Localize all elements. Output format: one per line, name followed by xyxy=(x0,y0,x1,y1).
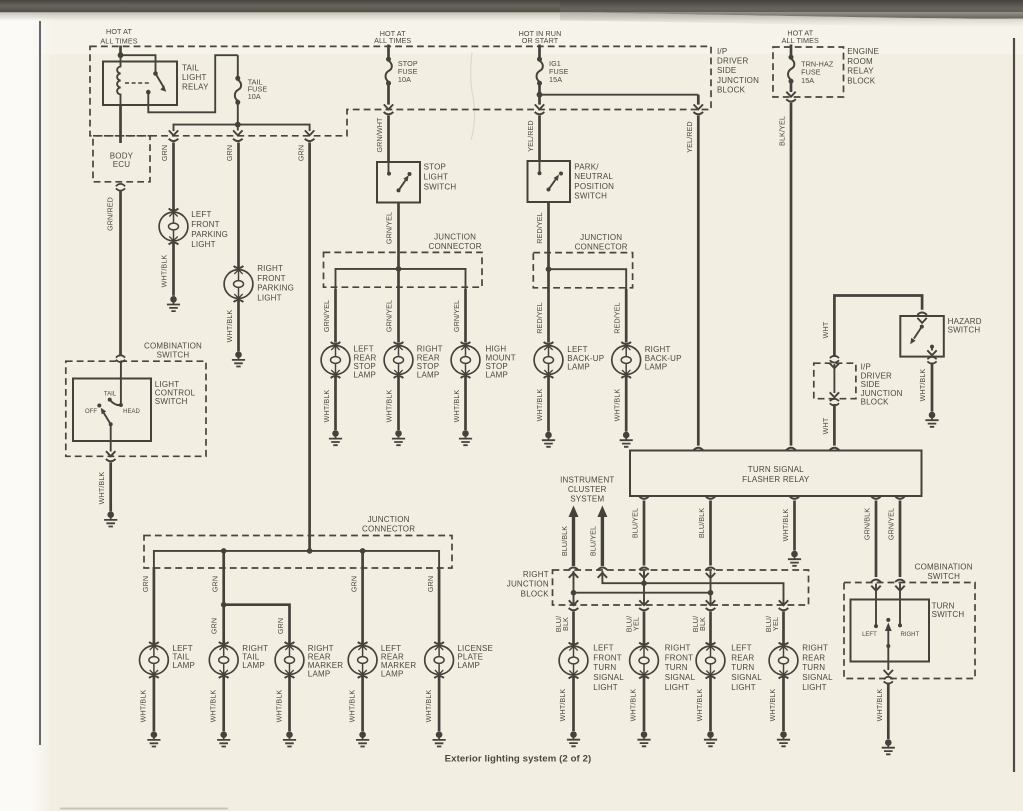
svg-text:GRN: GRN xyxy=(297,145,306,161)
wire BLU/YEL relay to junction block xyxy=(643,501,646,566)
svg-text:ROOM: ROOM xyxy=(847,57,873,66)
svg-text:RED/YEL: RED/YEL xyxy=(613,302,622,333)
wire GRN right tail xyxy=(222,551,225,646)
wire WHT/BLK relay to ground xyxy=(793,501,796,551)
svg-text:MOUNT: MOUNT xyxy=(486,353,516,362)
svg-text:BACK-UP: BACK-UP xyxy=(567,354,604,363)
svg-text:LEFT: LEFT xyxy=(191,210,211,219)
lamp right back-up xyxy=(612,342,641,378)
park/neutral input contact xyxy=(539,161,541,173)
hazard switch box xyxy=(900,316,944,357)
svg-text:RIGHT: RIGHT xyxy=(523,570,549,579)
svg-text:WHT/BLK: WHT/BLK xyxy=(160,255,169,288)
svg-text:RED/YEL: RED/YEL xyxy=(535,302,544,333)
wire RED/YEL park/neutral to junction xyxy=(547,202,550,269)
wire stop fuse output xyxy=(387,83,390,104)
wire RED/YEL right backup xyxy=(625,289,628,343)
svg-text:WHT/BLK: WHT/BLK xyxy=(768,689,777,722)
lamp license plate lamp xyxy=(425,642,454,678)
wire GRN/WHT to stop light switch xyxy=(387,116,390,163)
svg-text:LIGHT: LIGHT xyxy=(257,293,282,302)
svg-text:DRIVER: DRIVER xyxy=(861,371,892,380)
arc TAIL to HEAD xyxy=(110,400,121,406)
light control switch box xyxy=(73,379,151,442)
relay coil-contact dashed link xyxy=(125,82,150,84)
svg-text:GRN: GRN xyxy=(350,576,359,592)
wire GRN branch to right rear marker xyxy=(224,605,290,646)
wire GRN/BLK relay to turn switch xyxy=(875,501,878,578)
ground license plate lamp xyxy=(433,731,446,746)
svg-text:GRN/BLK: GRN/BLK xyxy=(862,508,871,540)
relay fixed contact xyxy=(153,71,158,76)
svg-text:JUNCTION: JUNCTION xyxy=(434,232,476,241)
svg-text:SWITCH: SWITCH xyxy=(155,397,188,406)
wire GRN/YEL stop switch to junction xyxy=(397,203,400,269)
scanner top bar xyxy=(0,0,1023,13)
turn switch output xyxy=(887,662,889,671)
GRN distribution bus xyxy=(174,125,310,131)
svg-text:SYSTEM: SYSTEM xyxy=(570,495,604,504)
body ECU dashed box xyxy=(93,136,150,182)
wire into stop fuse xyxy=(387,45,390,60)
svg-text:PARKING: PARKING xyxy=(191,230,228,239)
wire node A to relay contact xyxy=(121,55,156,73)
wire WHT/BLK left front turn signal to ground xyxy=(572,675,575,731)
svg-text:YEL: YEL xyxy=(632,617,641,631)
arrows into GRN wires xyxy=(169,130,178,135)
svg-text:HOT AT: HOT AT xyxy=(106,27,132,36)
node BLU/YEL junction xyxy=(641,580,647,586)
svg-text:WHT/BLK: WHT/BLK xyxy=(695,689,704,722)
svg-text:COMBINATION: COMBINATION xyxy=(144,342,202,351)
lamp left back-up xyxy=(534,342,563,378)
lamp high mount stop xyxy=(451,342,480,378)
svg-text:HEAD: HEAD xyxy=(123,409,140,415)
wire YEL/RED to park/neutral switch xyxy=(538,116,541,162)
wire GRN license plate xyxy=(438,567,441,646)
lamp right front parking light xyxy=(224,266,253,302)
lamp right rear turn signal light xyxy=(769,643,798,679)
svg-text:BLU/YEL: BLU/YEL xyxy=(630,508,639,538)
svg-text:GRN/RED: GRN/RED xyxy=(106,197,115,231)
wire GRN left rear marker xyxy=(361,551,364,646)
wire IG1 fuse output xyxy=(538,83,541,104)
svg-text:SWITCH: SWITCH xyxy=(932,610,965,619)
park/neutral position switch box xyxy=(528,161,571,202)
svg-text:REAR: REAR xyxy=(417,353,440,362)
svg-text:GRN: GRN xyxy=(211,576,220,592)
svg-text:SWITCH: SWITCH xyxy=(927,572,960,581)
svg-text:CONNECTOR: CONNECTOR xyxy=(362,524,415,533)
svg-text:GRN/YEL: GRN/YEL xyxy=(385,300,394,332)
wire WHT through I/P block xyxy=(830,363,839,368)
wire GRN right front parking xyxy=(237,143,240,270)
svg-text:TURN: TURN xyxy=(731,663,754,672)
right junction block dashed box xyxy=(553,570,809,605)
svg-text:LEFT: LEFT xyxy=(862,632,877,638)
ground right rear stop xyxy=(392,430,405,445)
ground left rear marker lamp xyxy=(356,731,369,746)
svg-text:ECU: ECU xyxy=(113,160,131,169)
lamp left rear stop xyxy=(321,342,350,378)
svg-text:WHT/BLK: WHT/BLK xyxy=(452,390,461,423)
svg-text:WHT/BLK: WHT/BLK xyxy=(613,389,622,422)
svg-text:SIGNAL: SIGNAL xyxy=(802,673,833,682)
inline connector below body ECU xyxy=(116,184,125,191)
contact HEAD xyxy=(119,403,123,407)
park/neutral arm xyxy=(547,188,551,192)
lamp right tail lamp xyxy=(209,642,238,678)
svg-text:TURN SIGNAL: TURN SIGNAL xyxy=(748,465,804,474)
ground right front parking xyxy=(232,351,245,366)
node rear junction input xyxy=(307,548,313,554)
svg-text:LAMP: LAMP xyxy=(242,661,265,670)
stop light switch box xyxy=(377,162,420,203)
wire WHT/BLK right front turn signal to ground xyxy=(643,675,646,731)
wire WHT/BLK right rear turn signal to ground xyxy=(782,675,785,731)
junction block internal wires xyxy=(573,571,575,605)
wire WHT/BLK left tail lamp to ground xyxy=(153,675,156,732)
relay coil xyxy=(117,55,120,105)
wire WHT/BLK right tail lamp to ground xyxy=(222,675,225,732)
svg-text:REAR: REAR xyxy=(354,353,377,362)
svg-text:GRN/YEL: GRN/YEL xyxy=(385,212,394,244)
svg-text:WHT/BLK: WHT/BLK xyxy=(347,690,356,723)
svg-text:PARK/: PARK/ xyxy=(574,163,599,172)
svg-text:BLU/YEL: BLU/YEL xyxy=(589,526,598,556)
svg-text:RED/YEL: RED/YEL xyxy=(535,212,544,243)
combination switch dashed box xyxy=(66,361,206,456)
stop switch input contact xyxy=(388,162,390,174)
ground hazard switch xyxy=(925,412,938,427)
connectors at top edge xyxy=(569,568,579,570)
svg-text:RIGHT: RIGHT xyxy=(645,345,671,354)
ground left tail lamp xyxy=(147,731,160,746)
svg-text:WHT/BLK: WHT/BLK xyxy=(629,689,638,722)
rear junction bus xyxy=(154,551,439,568)
wire WHT/BLK right rear marker lamp to ground xyxy=(288,675,291,732)
svg-text:DRIVER: DRIVER xyxy=(717,57,748,66)
svg-text:TURN: TURN xyxy=(932,601,955,610)
svg-text:LIGHT: LIGHT xyxy=(802,683,827,692)
svg-text:GRN: GRN xyxy=(210,618,219,634)
node A (relay feed junction) xyxy=(118,52,124,58)
svg-text:STOP: STOP xyxy=(424,163,446,172)
wire WHT/BLK license plate lamp to ground xyxy=(438,675,441,732)
engine room relay block dashed box xyxy=(773,47,844,97)
wire WHT/BLK to ground xyxy=(109,463,112,512)
svg-text:LEFT: LEFT xyxy=(593,644,613,653)
svg-text:RIGHT: RIGHT xyxy=(257,264,283,273)
svg-text:GRN/WHT: GRN/WHT xyxy=(375,117,384,153)
svg-text:WHT/BLK: WHT/BLK xyxy=(97,472,106,505)
svg-text:GRN: GRN xyxy=(426,576,435,592)
svg-text:NEUTRAL: NEUTRAL xyxy=(574,172,613,181)
svg-text:WHT: WHT xyxy=(821,321,830,338)
I/P driver side junction block (small) dashed box xyxy=(814,363,856,399)
svg-text:INSTRUMENT: INSTRUMENT xyxy=(560,475,614,484)
svg-text:BLOCK: BLOCK xyxy=(847,77,876,86)
lamp left front turn signal light xyxy=(559,643,588,679)
svg-text:LAMP: LAMP xyxy=(645,363,668,372)
svg-text:10A: 10A xyxy=(398,75,411,84)
svg-text:HIGH: HIGH xyxy=(486,345,507,354)
I/P driver side junction block (top, dashed outline) xyxy=(90,46,711,135)
svg-text:STOP: STOP xyxy=(417,362,439,371)
wire WHT/BLK left rear turn signal to ground xyxy=(709,675,712,731)
turn switch pole xyxy=(886,618,890,622)
svg-text:CONNECTOR: CONNECTOR xyxy=(575,242,628,251)
wire into IG1 fuse xyxy=(538,45,541,60)
stop fuse 10A xyxy=(386,57,392,86)
ground right rear marker lamp xyxy=(283,731,296,746)
svg-text:JUNCTION: JUNCTION xyxy=(368,515,410,524)
svg-text:SIDE: SIDE xyxy=(861,380,880,389)
svg-text:SWITCH: SWITCH xyxy=(424,183,457,192)
relay output contact xyxy=(146,90,151,95)
inline connector at combination switch input xyxy=(116,355,125,362)
wire GRN/RED body ECU to combination switch xyxy=(119,191,122,355)
TRN-HAZ fuse 15A xyxy=(788,55,794,84)
ground right front turn signal xyxy=(637,731,650,746)
svg-text:YEL/RED: YEL/RED xyxy=(526,120,535,151)
lamp left tail lamp xyxy=(140,642,169,678)
park/neutral upper contact xyxy=(559,172,563,176)
wire IG1 to YEL/RED feed (horizontal) xyxy=(540,94,699,96)
hazard output contact xyxy=(930,345,934,349)
svg-text:LAMP: LAMP xyxy=(381,669,404,678)
connectors into combination switch xyxy=(871,580,881,582)
svg-text:ENGINE: ENGINE xyxy=(847,47,879,56)
left page edge line xyxy=(39,21,41,745)
lamp right rear marker lamp xyxy=(275,642,304,678)
svg-text:GRN: GRN xyxy=(141,576,150,592)
wire relay output to tail fuse xyxy=(148,55,238,112)
svg-text:ALL TIMES: ALL TIMES xyxy=(782,36,819,45)
svg-text:RIGHT: RIGHT xyxy=(665,644,691,653)
wire WHT/BLK below right front parking xyxy=(237,299,240,352)
lamp left rear marker lamp xyxy=(348,642,377,678)
svg-text:YEL: YEL xyxy=(771,617,780,631)
svg-text:15A: 15A xyxy=(549,75,562,84)
svg-text:BLK/YEL: BLK/YEL xyxy=(778,116,787,146)
svg-text:LAMP: LAMP xyxy=(173,661,196,670)
ground right back-up xyxy=(620,432,633,447)
svg-text:OR START: OR START xyxy=(522,36,559,45)
wire GRN/YEL high mount stop xyxy=(464,289,467,343)
ground right rear turn signal xyxy=(777,731,790,746)
svg-text:OFF: OFF xyxy=(85,409,97,415)
IG1 fuse 15A xyxy=(537,57,543,86)
node tail fuse output xyxy=(235,122,241,128)
wire light control output xyxy=(110,424,112,451)
wire WHT/BLK left rear marker lamp to ground xyxy=(361,675,364,732)
svg-text:WHT/BLK: WHT/BLK xyxy=(274,690,283,723)
svg-text:TURN: TURN xyxy=(802,663,825,672)
svg-text:REAR: REAR xyxy=(802,653,825,662)
svg-text:BACK-UP: BACK-UP xyxy=(645,354,682,363)
svg-text:SIGNAL: SIGNAL xyxy=(731,673,762,682)
svg-text:LAMP: LAMP xyxy=(457,661,480,670)
svg-text:WHT/BLK: WHT/BLK xyxy=(322,390,331,423)
svg-text:STOP: STOP xyxy=(486,362,508,371)
svg-text:SIGNAL: SIGNAL xyxy=(593,673,624,682)
svg-text:STOP: STOP xyxy=(354,362,376,371)
svg-text:SIGNAL: SIGNAL xyxy=(665,673,696,682)
lamp right rear stop xyxy=(384,342,413,378)
junction connector (stop lamps) dashed box xyxy=(324,252,483,287)
svg-text:LAMP: LAMP xyxy=(567,363,590,372)
wires WHT/BLK backup lamps to ground xyxy=(547,375,550,432)
flasher relay outputs xyxy=(639,496,649,498)
wire to tail fuse xyxy=(237,55,239,78)
wire WHT flasher relay to hazard switch xyxy=(833,404,836,446)
svg-text:TURN: TURN xyxy=(593,663,616,672)
svg-text:I/P: I/P xyxy=(717,47,727,56)
lamp right front turn signal light xyxy=(630,643,659,679)
node backup junction xyxy=(546,266,552,272)
svg-text:WHT/BLK: WHT/BLK xyxy=(875,689,884,722)
svg-text:JUNCTION: JUNCTION xyxy=(717,76,759,85)
svg-text:WHT/BLK: WHT/BLK xyxy=(535,389,544,422)
svg-text:GRN/YEL: GRN/YEL xyxy=(322,300,331,332)
svg-text:WHT/BLK: WHT/BLK xyxy=(918,369,927,402)
ground light control switch xyxy=(104,511,117,526)
contact TAIL xyxy=(108,398,112,402)
svg-text:RIGHT: RIGHT xyxy=(900,632,919,638)
svg-text:WHT/BLK: WHT/BLK xyxy=(558,689,567,722)
svg-text:FRONT: FRONT xyxy=(191,220,220,229)
node rear junction (left marker) xyxy=(360,548,366,554)
stop switch arm xyxy=(397,188,401,192)
svg-text:LAMP: LAMP xyxy=(354,371,377,380)
svg-text:LAMP: LAMP xyxy=(417,371,440,380)
svg-text:BLK: BLK xyxy=(561,617,570,631)
svg-text:ALL TIMES: ALL TIMES xyxy=(374,36,411,45)
svg-text:TAIL: TAIL xyxy=(104,392,117,398)
ground left rear turn signal xyxy=(704,731,717,746)
svg-text:RIGHT: RIGHT xyxy=(417,345,443,354)
wire WHT/BLK below left front parking xyxy=(172,241,175,296)
lamp left front parking light xyxy=(159,209,188,245)
svg-text:TAIL: TAIL xyxy=(182,64,199,73)
svg-text:WHT/BLK: WHT/BLK xyxy=(385,390,394,423)
ground left front turn signal xyxy=(567,731,580,746)
svg-text:SWITCH: SWITCH xyxy=(574,192,607,201)
node BLU/BLK junctions xyxy=(571,590,577,596)
wire BLU/BLK to left rear turn signal light xyxy=(709,612,712,646)
svg-text:I/P: I/P xyxy=(861,363,871,372)
wire RED/YEL left backup xyxy=(547,269,550,342)
svg-text:COMBINATION: COMBINATION xyxy=(915,563,973,572)
wire relay coil to body ECU xyxy=(119,105,122,143)
turn signal flasher relay box xyxy=(630,451,922,497)
svg-text:BLOCK: BLOCK xyxy=(861,398,890,407)
wire into light control switch xyxy=(120,363,122,406)
svg-text:SWITCH: SWITCH xyxy=(948,325,981,334)
wire WHT/BLK turn switch to ground xyxy=(887,683,890,740)
svg-text:WHT/BLK: WHT/BLK xyxy=(225,310,234,343)
ground left front parking xyxy=(167,296,180,311)
svg-text:LIGHT: LIGHT xyxy=(424,173,449,182)
svg-text:BLOCK: BLOCK xyxy=(521,589,550,598)
svg-text:WHT: WHT xyxy=(821,417,830,434)
svg-text:JUNCTION: JUNCTION xyxy=(580,233,622,242)
svg-text:RELAY: RELAY xyxy=(847,67,874,76)
wire BLU/BLK to left front turn signal light xyxy=(572,612,575,646)
hazard input contact xyxy=(920,325,924,329)
hazard output wire xyxy=(931,347,933,351)
svg-text:CONNECTOR: CONNECTOR xyxy=(428,242,481,251)
wire BLU/YEL to right rear turn signal light xyxy=(782,612,785,646)
svg-text:LAMP: LAMP xyxy=(308,669,331,678)
wire BLU/BLK relay to junction block xyxy=(709,501,712,566)
wire GRN left front parking xyxy=(172,143,175,212)
tail light relay box xyxy=(103,62,177,106)
svg-text:TURN: TURN xyxy=(665,663,688,672)
svg-text:LIGHT: LIGHT xyxy=(593,683,618,692)
wire GRN/BLK into LEFT contact xyxy=(875,584,877,627)
ground high mount stop xyxy=(459,430,472,445)
svg-text:BODY: BODY xyxy=(110,151,134,160)
svg-text:YEL/RED: YEL/RED xyxy=(685,121,694,152)
ground turn switch xyxy=(882,739,895,754)
svg-text:GRN/YEL: GRN/YEL xyxy=(452,300,461,332)
svg-text:JUNCTION: JUNCTION xyxy=(507,580,549,589)
contact OFF xyxy=(97,404,101,408)
svg-text:WHT/BLK: WHT/BLK xyxy=(139,690,148,723)
ground right tail lamp xyxy=(217,731,230,746)
svg-text:LIGHT: LIGHT xyxy=(665,683,690,692)
svg-text:PARKING: PARKING xyxy=(257,284,294,293)
svg-text:LEFT: LEFT xyxy=(567,345,587,354)
svg-text:BLU/BLK: BLU/BLK xyxy=(560,526,569,556)
hazard switch arm xyxy=(914,327,922,339)
svg-text:LEFT: LEFT xyxy=(354,345,374,354)
svg-text:REAR: REAR xyxy=(731,653,754,662)
svg-text:GRN: GRN xyxy=(276,618,285,634)
svg-text:FRONT: FRONT xyxy=(665,653,694,662)
wire trn-haz output xyxy=(790,82,793,93)
wire GRN/YEL left rear stop xyxy=(334,289,337,343)
wire GRN/YEL right rear stop xyxy=(397,269,400,343)
svg-text:15A: 15A xyxy=(801,76,814,85)
right page edge line xyxy=(1013,38,1015,772)
hazard input arrow xyxy=(917,318,926,323)
wire BLU/YEL to right front turn signal light xyxy=(643,612,646,646)
wire GRN/YEL into RIGHT contact xyxy=(899,584,901,626)
bottom faint scan line xyxy=(60,808,228,810)
ground flasher relay xyxy=(788,551,801,566)
svg-text:LIGHT: LIGHT xyxy=(182,73,207,82)
ground left rear stop xyxy=(329,430,342,445)
svg-text:FLASHER RELAY: FLASHER RELAY xyxy=(742,475,810,484)
wire GRN/YEL relay to turn switch xyxy=(899,501,902,578)
switch wiper arm xyxy=(109,422,113,426)
faint paper crease xyxy=(471,52,475,140)
svg-text:FRONT: FRONT xyxy=(593,653,622,662)
arrow BLU/YEL to instrument cluster xyxy=(597,506,607,518)
node rear junction (right tail) xyxy=(221,548,227,554)
stop junction bus xyxy=(336,269,466,290)
ground left back-up xyxy=(542,432,555,447)
node stop junction xyxy=(396,266,402,272)
arrow BLU/BLK to instrument cluster xyxy=(569,506,579,518)
svg-text:CLUSTER: CLUSTER xyxy=(568,485,607,494)
svg-text:GRN: GRN xyxy=(160,145,169,161)
wire from HOT AT ALL TIMES to node A xyxy=(119,46,122,56)
svg-text:POSITION: POSITION xyxy=(574,182,614,191)
